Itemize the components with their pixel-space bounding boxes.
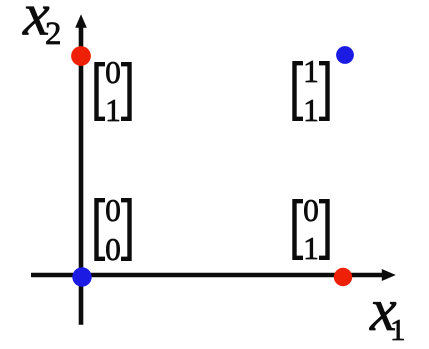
svg-text:0: 0 xyxy=(105,193,121,228)
svg-text:1: 1 xyxy=(390,312,406,347)
svg-text:1: 1 xyxy=(105,93,121,128)
svg-text:1: 1 xyxy=(303,54,319,89)
svg-text:0: 0 xyxy=(105,232,121,267)
svg-text:1: 1 xyxy=(303,231,319,266)
svg-text:0: 0 xyxy=(303,193,319,228)
svg-text:2: 2 xyxy=(45,16,62,52)
svg-text:0: 0 xyxy=(105,55,121,90)
svg-text:1: 1 xyxy=(303,93,319,128)
